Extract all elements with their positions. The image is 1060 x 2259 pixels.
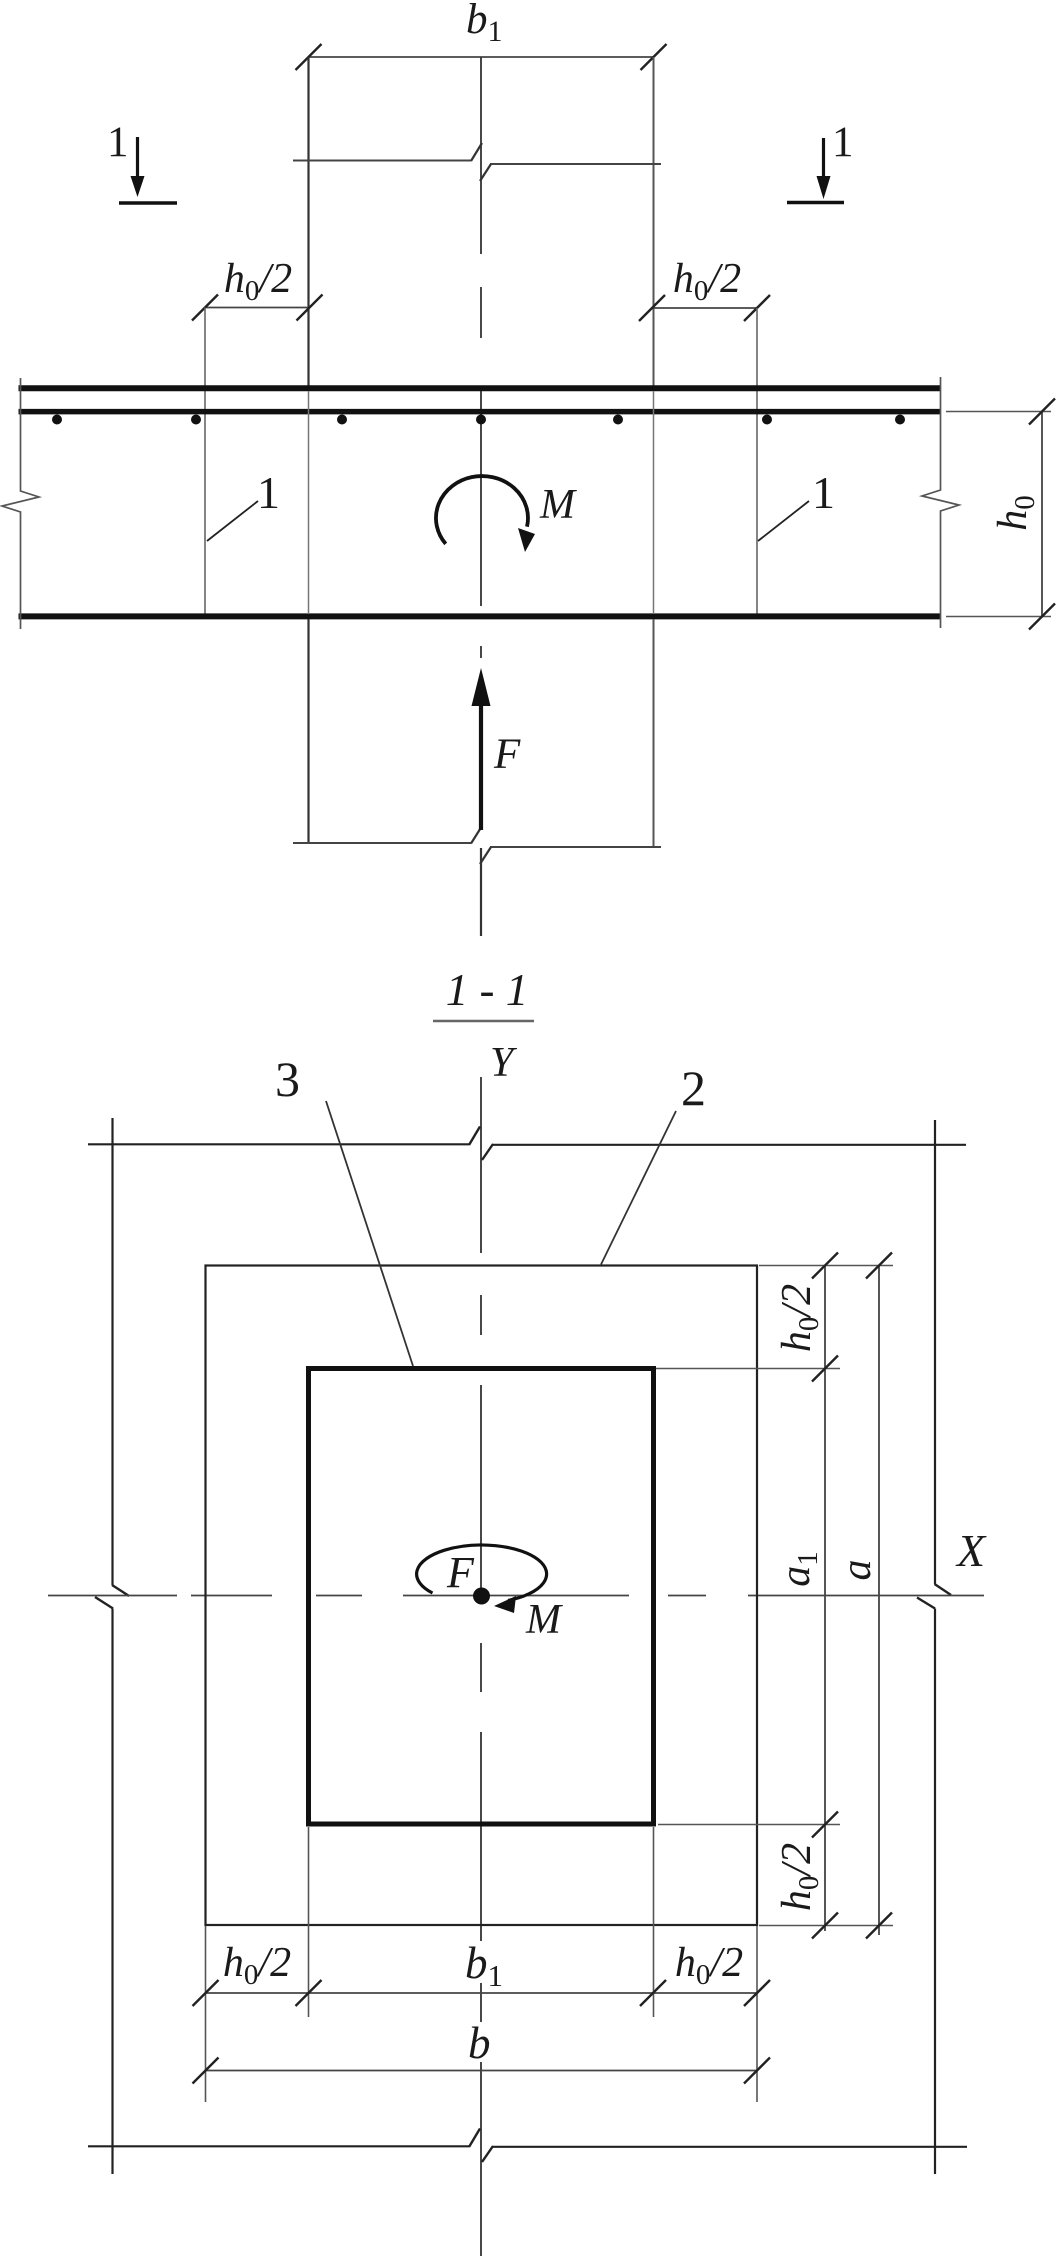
slab outline plan: top edge left part	[88, 1143, 469, 1145]
slab outline plan: right edge lower part	[934, 1609, 936, 2175]
F dot center	[473, 1588, 490, 1605]
svg-text:X: X	[955, 1525, 987, 1576]
tick b1 plan 2	[296, 1980, 322, 2006]
section mark 1 left: bar	[119, 201, 177, 205]
top edge jog diagonal 1	[469, 1127, 480, 1146]
dimension line a	[878, 1266, 880, 1936]
extension line plan bottom x205	[205, 1926, 207, 2102]
slab bottom line	[19, 613, 942, 619]
rebar dot 1	[52, 415, 62, 425]
tick a top	[866, 1253, 892, 1279]
extension line contour bottom right	[759, 1925, 893, 1927]
rebar dot 6	[762, 415, 772, 425]
left edge jog diagonal 2	[95, 1597, 113, 1609]
column upper right edge	[653, 57, 655, 386]
force F arrow shaft	[479, 703, 483, 830]
column lower left edge	[307, 619, 309, 844]
column lower break line right	[490, 846, 661, 848]
svg-text:Y: Y	[490, 1040, 518, 1086]
column edge line inside slab left	[308, 391, 310, 614]
critical contour rectangle (node 2)	[206, 1266, 758, 1926]
extension line x757	[756, 308, 758, 614]
leader 2 line	[601, 1111, 676, 1265]
section mark 1 right: bar	[787, 201, 844, 205]
slab outline plan: right edge upper part	[934, 1120, 936, 1584]
dimension line h0/2 right	[652, 307, 757, 309]
svg-text:a: a	[834, 1560, 880, 1581]
leader 1 left in slab	[207, 501, 258, 541]
rebar dot 2	[191, 415, 201, 425]
right edge jog diagonal 1	[935, 1584, 952, 1595]
break jog diagonal lower 1	[471, 826, 482, 844]
extension line plan bottom x757	[756, 1926, 758, 2102]
top edge jog diagonal 2	[482, 1144, 493, 1160]
bottom edge jog diagonal 2	[482, 2146, 493, 2162]
X axis segments	[48, 1595, 177, 1597]
h0 extension bottom	[946, 616, 1051, 618]
extension line column bottom right	[658, 1824, 840, 1826]
break jog diagonal upper 2	[480, 164, 491, 181]
moment arc M arrowhead	[518, 528, 535, 552]
break jog diagonal lower 2	[480, 847, 491, 864]
svg-text:h0/2: h0/2	[673, 256, 741, 307]
tick h0/2 left b	[297, 295, 323, 321]
section mark 1 right: arrow shaft	[822, 138, 825, 179]
dimension line a1	[824, 1266, 826, 1932]
leader 1 right in slab	[758, 501, 809, 541]
center axis section segments	[480, 57, 482, 254]
svg-text:1: 1	[257, 467, 280, 518]
svg-text:h0/2: h0/2	[774, 1284, 825, 1352]
column upper break line left	[293, 160, 471, 162]
rebar dot 5	[613, 415, 623, 425]
leader 3 line	[326, 1101, 413, 1366]
section mark 1 right: arrow head	[817, 176, 831, 199]
extension line contour top right	[759, 1265, 893, 1267]
bottom edge jog diagonal 1	[469, 2129, 480, 2148]
svg-text:1: 1	[812, 467, 835, 518]
svg-text:a1: a1	[773, 1551, 824, 1587]
slab outline plan: left edge upper part	[111, 1118, 113, 1585]
svg-text:F: F	[446, 1548, 475, 1597]
Y axis segments	[480, 1077, 482, 1253]
tick a1 bottom	[812, 1913, 838, 1939]
rebar dot 7	[895, 415, 905, 425]
dimension line b1 plan	[206, 1992, 758, 1994]
left edge jog diagonal 1	[112, 1585, 129, 1596]
rebar dot 4	[476, 415, 486, 425]
svg-text:3: 3	[275, 1051, 300, 1107]
svg-text:h0/2: h0/2	[675, 1940, 743, 1991]
moment ellipse plan	[417, 1545, 547, 1601]
tick a1 column top	[812, 1356, 838, 1382]
column upper left edge	[307, 57, 309, 386]
svg-text:h0/2: h0/2	[223, 1940, 291, 1991]
extension line plan bottom x654	[653, 1827, 655, 2017]
column lower break line left	[293, 842, 471, 844]
column rectangle (node 3)	[309, 1369, 654, 1825]
h0 dimension line	[1041, 412, 1043, 617]
moment arc M	[436, 476, 528, 544]
extension line plan bottom x310	[308, 1827, 310, 2017]
PLAN VIEW (bottom)	[48, 965, 987, 2256]
dimension line b plan	[206, 2070, 758, 2072]
extension line x205	[204, 308, 206, 615]
dimension line b1	[309, 56, 654, 58]
svg-text:b: b	[468, 2018, 491, 2068]
tick h0 top	[1029, 399, 1055, 425]
title underline	[433, 1020, 534, 1023]
tick b1 left	[296, 44, 322, 70]
svg-text:F: F	[493, 731, 521, 778]
slab right edge with break	[922, 377, 959, 628]
h0 extension top	[946, 411, 1051, 413]
tick a1 top h0/2 upper	[812, 1253, 838, 1279]
tick h0 bottom	[1029, 604, 1055, 630]
svg-text:h0/2: h0/2	[774, 1843, 825, 1911]
section mark 1 left: arrow head	[131, 176, 145, 197]
svg-text:b1: b1	[466, 0, 503, 48]
svg-text:1: 1	[832, 119, 854, 166]
slab top rebar line	[19, 409, 942, 415]
slab outline plan: bottom edge left part	[88, 2145, 469, 2147]
slab outline plan: left edge lower part	[111, 1609, 113, 2175]
tick b1 plan 1	[193, 1980, 219, 2006]
svg-text:1 - 1: 1 - 1	[446, 965, 529, 1015]
rebar dot 3	[337, 415, 347, 425]
tick b1 plan 4	[744, 1980, 770, 2006]
tick h0/2 left a	[192, 295, 218, 321]
column lower right edge	[653, 619, 655, 848]
moment ellipse arrowhead	[494, 1596, 516, 1613]
svg-text:h0/2: h0/2	[224, 256, 292, 307]
force F arrow head	[472, 668, 491, 706]
tick h0/2 right a	[639, 295, 665, 321]
slab top surface line	[19, 385, 942, 391]
right edge jog diagonal 2	[917, 1598, 935, 1609]
slab left edge with break	[2, 378, 39, 629]
SECTION VIEW (top)	[2, 0, 1055, 936]
column upper break line right	[490, 163, 661, 165]
svg-text:M: M	[525, 1597, 563, 1643]
svg-text:1: 1	[107, 119, 129, 166]
tick b plan right	[744, 2058, 770, 2084]
tick b1 plan 3	[640, 1980, 666, 2006]
svg-text:2: 2	[681, 1060, 706, 1116]
svg-text:b1: b1	[465, 1938, 503, 1993]
section mark 1 left: arrow shaft	[136, 137, 139, 181]
tick h0/2 right b	[744, 295, 770, 321]
svg-text:h0: h0	[990, 495, 1041, 531]
column edge line inside slab right	[653, 391, 655, 614]
tick a bottom	[866, 1913, 892, 1939]
svg-text:M: M	[539, 482, 577, 528]
break jog diagonal upper 1	[471, 143, 482, 161]
extension line column top right	[656, 1368, 840, 1370]
dimension line h0/2 left	[205, 307, 310, 309]
tick a1 column bottom	[812, 1812, 838, 1838]
slab outline plan: top edge right part	[492, 1144, 966, 1146]
slab outline plan: bottom edge right part	[492, 2146, 967, 2148]
tick b plan left	[193, 2058, 219, 2084]
tick b1 right	[641, 44, 667, 70]
